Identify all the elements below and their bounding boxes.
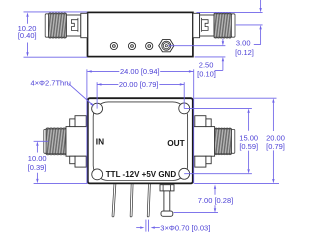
top view feedthrough circle 3 (146, 42, 153, 49)
corner hole bottom-left (92, 169, 103, 180)
dimension 15.00 ext lines (184, 108, 252, 173)
top view left connector bushing (81, 13, 88, 37)
svg-text:TTL -12V +5V GND: TTL -12V +5V GND (106, 170, 177, 179)
bottom view lid inner outline (93, 102, 187, 181)
dimension 2.50 leader from hex nut (168, 39, 225, 71)
bottom view left connector threads (44, 129, 47, 153)
top view right connector socket detail (202, 18, 209, 32)
dimension 24.00 dim line (87, 70, 193, 72)
dimension 10.20 arrows (26, 12, 28, 16)
bottom view right connector bottom tab (195, 156, 206, 167)
bottom view right connector threads (215, 129, 232, 154)
dimension 15.00 dim line (248, 113, 250, 169)
top view right connector hex (200, 15, 214, 36)
svg-text:[0.59]: [0.59] (239, 142, 258, 151)
dimension 7.00 (174, 189, 219, 213)
svg-text:[0.39]: [0.39] (28, 163, 47, 172)
dimension 20.00 horizontal ext lines (97, 82, 184, 108)
svg-text:24.00 [0.94]: 24.00 [0.94] (120, 67, 160, 76)
top view right connector threads (214, 14, 231, 37)
svg-text:[0.12]: [0.12] (235, 48, 254, 57)
standoff nut (160, 185, 174, 191)
top view right connector bushing (193, 13, 200, 37)
svg-text:[0.40]: [0.40] (18, 31, 37, 40)
dimension 20.00 right dim line (272, 103, 274, 180)
top view left connector hex (66, 15, 80, 36)
svg-text:IN: IN (96, 137, 104, 147)
pin 2 (131, 184, 132, 216)
top view feedthrough circle 1 (110, 42, 152, 49)
svg-text:OUT: OUT (167, 138, 185, 148)
dimension 3.00 arrows (259, 8, 261, 12)
top view left connector end cap (45, 14, 48, 37)
bottom view left connector bottom tab (75, 156, 86, 167)
corner hole top-left (92, 103, 103, 114)
dimension 3.00 ext lines (197, 0, 263, 45)
bottom view left connector top tab (75, 116, 86, 127)
dimension 3x0.70 ext lines (136, 220, 160, 232)
svg-text:4×Φ2.7Thru: 4×Φ2.7Thru (31, 79, 71, 88)
bottom view left connector bottom step (70, 156, 75, 164)
dimension 10.00 arrows (36, 141, 38, 145)
top view left connector socket detail (71, 18, 78, 32)
dimension 15.00 arrows (247, 109, 249, 113)
bottom view right connector bottom step (206, 156, 211, 164)
dimension 3x0.70 arrows (140, 226, 144, 228)
bottom view right connector top step (206, 119, 211, 127)
svg-text:10.00: 10.00 (28, 154, 47, 163)
dimension 2.50 arrows (222, 41, 224, 45)
svg-text:[0.10]: [0.10] (197, 70, 216, 79)
svg-text:7.00 [0.28]: 7.00 [0.28] (198, 196, 233, 205)
dimension 20.00 horizontal arrows (97, 83, 101, 85)
dimension 10.20 dim line (27, 17, 29, 53)
top view body (88, 12, 193, 56)
standoff foot (161, 211, 173, 216)
dimension 10.20 ext lines (24, 12, 88, 57)
bottom view right connector body block (193, 127, 215, 157)
top view left connector threads (48, 14, 66, 37)
top view hex nut (159, 40, 174, 52)
dimension 20.00 horizontal dim line (97, 83, 184, 85)
leader 4x2.7 (69, 84, 92, 104)
bottom view left connector body block (66, 127, 88, 157)
pin 3 (148, 184, 149, 216)
svg-text:[0.79]: [0.79] (266, 142, 285, 151)
dimension 7.00 arrows (214, 185, 216, 189)
dimension 20.00 right ext lines (194, 98, 279, 183)
top view feedthrough circle 2 (128, 42, 135, 49)
bottom view square body (88, 98, 193, 183)
svg-text:3×Φ0.70 [0.03]: 3×Φ0.70 [0.03] (160, 223, 210, 232)
svg-text:20.00 [0.79]: 20.00 [0.79] (119, 80, 159, 89)
dimension 10.00 dim line (36, 146, 38, 179)
bottom view left connector top step (70, 119, 75, 127)
dimension 10.00 ext lines (34, 141, 88, 183)
corner hole top-right (179, 103, 190, 114)
top view right connector end cap (231, 14, 235, 37)
svg-text:2.50: 2.50 (199, 60, 214, 69)
pin 1 (113, 184, 115, 216)
dimension 20.00 right arrows (272, 98, 274, 102)
corner hole bottom-right (179, 168, 190, 179)
bottom view right connector top tab (195, 116, 206, 127)
dimension 24.00 ext lines (87, 69, 194, 183)
svg-text:3.00: 3.00 (236, 38, 251, 47)
dimension 24.00 arrows (87, 70, 91, 72)
standoff shaft (164, 191, 170, 211)
